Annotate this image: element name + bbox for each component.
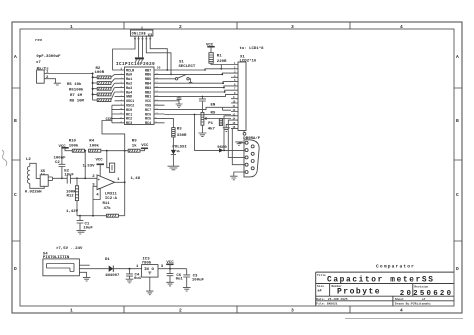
- svg-text:C: C: [456, 192, 459, 198]
- wire minus input: [93, 186, 97, 215]
- svg-text:Date:: Date:: [316, 298, 325, 301]
- svg-text:A: A: [456, 54, 459, 60]
- wire Cx top pin to resistor bus: [44, 73, 92, 75]
- svg-text:Capacitor meterSS: Capacitor meterSS: [327, 276, 435, 284]
- svg-text:4: 4: [400, 24, 403, 30]
- capacitor C4: [126, 269, 133, 280]
- svg-text:D: D: [14, 266, 17, 272]
- inductor L2: [27, 166, 29, 183]
- svg-text:100R: 100R: [95, 71, 105, 75]
- svg-text:B: B: [14, 118, 17, 124]
- svg-text:1k: 1k: [132, 143, 137, 148]
- wire LCD pin14 net down to DB9 pin2: [224, 116, 246, 151]
- wire R8 to IC pin RA4: [111, 92, 115, 100]
- zone ticks right: [454, 88, 462, 241]
- wire RS net: [165, 114, 232, 116]
- svg-text:to: LCD1*8: to: LCD1*8: [240, 46, 265, 51]
- svg-text:Ra4: Ra4: [126, 91, 132, 95]
- svg-text:L2: L2: [26, 158, 31, 162]
- svg-text:10uF: 10uF: [83, 227, 93, 231]
- svg-text:R1: R1: [217, 55, 222, 59]
- wire divider node to balance box: [107, 151, 110, 168]
- capacitor C6: [167, 269, 174, 283]
- svg-text:R10: R10: [69, 139, 77, 143]
- capacitor C3: [183, 269, 190, 288]
- svg-text:0pF-3300uF: 0pF-3300uF: [36, 55, 61, 59]
- resistor R5: [97, 82, 111, 85]
- svg-text:A: A: [14, 54, 17, 60]
- ground under C4: [126, 279, 134, 283]
- svg-text:RB5: RB5: [145, 78, 151, 82]
- wire node row: [53, 177, 98, 179]
- svg-text:RB4: RB4: [145, 83, 151, 87]
- junction dots on bus: [92, 73, 94, 75]
- svg-text:RC3: RC3: [126, 122, 132, 126]
- svg-text:R8 10M: R8 10M: [70, 100, 85, 104]
- wire LCD pin15 net down to DB9 pin3: [228, 120, 245, 157]
- VCC bar divider: [61, 147, 68, 149]
- svg-text:C: C: [14, 192, 17, 198]
- svg-text:Comparator: Comparator: [376, 264, 415, 270]
- wire X5 to node: [48, 177, 52, 180]
- scan smudge left margin: [2, 150, 7, 166]
- svg-text:IC2:A: IC2:A: [105, 197, 118, 201]
- IC1 right pin numbers: [155, 72, 158, 123]
- IC1 right pin stubs: [154, 70, 165, 123]
- svg-text:R4: R4: [89, 139, 94, 143]
- zone ticks bottom: [124, 306, 350, 313]
- wire RB5 to switch S1: [165, 78, 176, 80]
- wire P1 wiper to LCD VO: [207, 118, 232, 120]
- wire IC3 out rail: [158, 268, 187, 270]
- svg-text:Size: Size: [317, 284, 324, 288]
- svg-text:2: 2: [179, 308, 182, 314]
- svg-text:SECLECT: SECLECT: [179, 65, 196, 69]
- svg-text:VSS: VSS: [145, 105, 151, 109]
- wire X3 to sheet top: [141, 27, 143, 31]
- wire LCD pin16 net down to DB9 pin4: [231, 129, 245, 165]
- wire comb joining lower left pins: [112, 105, 115, 123]
- junction dots on LCD bus: [204, 69, 206, 71]
- svg-text:VCC: VCC: [145, 100, 151, 104]
- wire R6 to IC pin RA2: [111, 83, 115, 89]
- svg-text:4k7: 4k7: [208, 126, 216, 131]
- svg-text:PULSSI: PULSSI: [172, 145, 187, 149]
- wire X4 minus to ground: [79, 272, 86, 277]
- TX arrow: [219, 148, 224, 152]
- svg-text:RC7: RC7: [145, 109, 151, 113]
- svg-text:RB3: RB3: [145, 87, 151, 91]
- resistor R3: [172, 128, 175, 137]
- wire X1 pin16 bottom to DB9 shield pin: [243, 131, 245, 133]
- svg-text:GND: GND: [126, 96, 132, 100]
- wire TX drop to 9600: [195, 115, 220, 151]
- crystal X5 body: [40, 175, 48, 187]
- connector X4 power jack body: [43, 259, 80, 276]
- wire RC5 to R3: [165, 118, 174, 127]
- ground under C6: [166, 282, 174, 286]
- op-amp bottom pin to minus net: [93, 188, 100, 199]
- zone ticks left: [12, 88, 20, 241]
- svg-text:R12: R12: [67, 195, 75, 199]
- VCC bar right of R9: [140, 148, 145, 150]
- DB9 pin circles right column: [251, 145, 254, 148]
- connector X3 ONLINE body: [131, 30, 153, 36]
- VCC bar R1: [207, 46, 214, 48]
- svg-text:RB6: RB6: [145, 74, 151, 78]
- capacitor E2 series: [67, 175, 70, 184]
- svg-text:100nF: 100nF: [54, 157, 67, 161]
- svg-text:D: D: [456, 266, 459, 272]
- svg-text:RC6: RC6: [145, 113, 151, 117]
- junction divider tap: [84, 177, 86, 179]
- wire op-amp output: [115, 181, 125, 183]
- VCC bar op-amp: [97, 163, 105, 165]
- wire RB6 to LCD: [165, 73, 232, 74]
- svg-text:220R: 220R: [217, 60, 227, 64]
- wire R5 to IC pin RA1: [111, 79, 115, 83]
- svg-text:Ra2: Ra2: [126, 83, 132, 87]
- connector X6 body: [37, 70, 45, 83]
- svg-text:File:: File:: [316, 302, 325, 306]
- wire to LCD pin8: [165, 94, 232, 96]
- switch S1: [175, 75, 192, 83]
- capacitor C1: [77, 216, 84, 231]
- wire X3 pin1 to MCLR: [113, 39, 135, 70]
- capacitor C2 100nF: [59, 148, 66, 178]
- wire EN net: [165, 107, 232, 110]
- title block outline: [316, 272, 454, 306]
- svg-text:IC1PIC16F2620: IC1PIC16F2620: [116, 63, 155, 67]
- resistor R9: [128, 149, 140, 152]
- junction R12 tap: [76, 177, 78, 179]
- capacitor C7 on VCC pin: [165, 96, 183, 107]
- svg-text:RC4: RC4: [145, 122, 151, 126]
- potentiometer P1: [201, 112, 207, 125]
- zone ticks top: [124, 22, 350, 29]
- resistor R1: [209, 53, 213, 64]
- DB9 shield pin circle: [243, 132, 246, 135]
- svg-text:20250620: 20250620: [400, 290, 453, 298]
- svg-text:100k: 100k: [69, 143, 79, 148]
- svg-text:Revision: Revision: [414, 284, 428, 288]
- IC1 left pin stubs: [115, 70, 125, 123]
- junction on RB7 net: [166, 69, 168, 71]
- LED D2 PULSSI: [168, 137, 180, 170]
- svg-text:Title: Title: [317, 273, 326, 277]
- wire RB7 to LCD: [165, 69, 232, 70]
- ground at DB9: [230, 176, 238, 180]
- svg-text:0.022mH: 0.022mH: [25, 190, 42, 194]
- X1 pin stubs: [231, 65, 238, 129]
- junction on RB6 net: [170, 74, 172, 76]
- svg-text:47k: 47k: [104, 206, 112, 211]
- wire X4 top stub: [79, 264, 89, 266]
- svg-text:EN: EN: [211, 103, 216, 107]
- svg-text:26-JUN 2025: 26-JUN 2025: [328, 298, 348, 301]
- connector X1 LCD body: [238, 62, 246, 131]
- svg-text:R3: R3: [177, 128, 182, 132]
- svg-text:2: 2: [179, 24, 182, 30]
- svg-text:1N4007: 1N4007: [105, 274, 120, 278]
- svg-text:Ra3: Ra3: [126, 87, 132, 91]
- wire X3 pin4 to RB6 net: [146, 39, 171, 75]
- svg-text:x7: x7: [36, 61, 41, 65]
- wire tap down to tank node: [84, 151, 86, 178]
- DB9 pin1 stub to ground: [239, 141, 245, 144]
- svg-text:D1: D1: [105, 258, 110, 262]
- ground under C1: [76, 230, 85, 234]
- capacitor C8 above P1: [199, 96, 206, 112]
- svg-text:0u1: 0u1: [176, 278, 184, 282]
- svg-text:R9: R9: [132, 139, 137, 143]
- resistor R13 contrast: [219, 119, 222, 126]
- svg-text:>7,5V ..24V: >7,5V ..24V: [56, 246, 83, 251]
- ground under P1: [198, 125, 206, 136]
- svg-text:OSC1: OSC1: [126, 100, 134, 104]
- connector X2 DB9 shell: [244, 140, 259, 177]
- op-amp IC2 LM311: [97, 175, 115, 190]
- wire DB9 pin5 to ground: [234, 172, 245, 176]
- svg-text:LM311: LM311: [105, 192, 118, 196]
- resistor R7: [97, 93, 111, 96]
- VCC bar out: [166, 263, 173, 265]
- svg-text:R5 10k: R5 10k: [67, 82, 82, 87]
- junction R10/R4: [84, 150, 86, 152]
- svg-text:of: of: [422, 297, 426, 301]
- svg-text:VCC: VCC: [96, 158, 104, 162]
- wire X4 plus to D1: [79, 268, 108, 270]
- svg-text:Ra0: Ra0: [126, 74, 132, 78]
- svg-text:100k: 100k: [89, 143, 99, 148]
- svg-text:RC2: RC2: [126, 118, 132, 122]
- svg-text:Ra1: Ra1: [126, 78, 132, 82]
- X1 pin numbers: [233, 62, 237, 129]
- resistor R10: [72, 149, 84, 152]
- svg-text:IN: IN: [144, 268, 149, 272]
- svg-text:C2: C2: [55, 161, 60, 165]
- svg-text:MCLR: MCLR: [126, 69, 135, 73]
- svg-text:OSC2: OSC2: [126, 105, 134, 109]
- svg-text:a4: a4: [318, 290, 322, 294]
- wire D1 to IC3: [113, 268, 141, 270]
- resistor R2: [97, 76, 111, 79]
- output node vertical: [124, 149, 126, 216]
- svg-text:RB2: RB2: [145, 91, 151, 95]
- svg-text:RC0: RC0: [126, 109, 132, 113]
- microcontroller IC1 PIC16F2620 body: [125, 67, 155, 125]
- resistor R4: [89, 149, 101, 152]
- balance box op-amp: [109, 163, 114, 172]
- svg-text:RC1: RC1: [126, 113, 132, 117]
- svg-text:3: 3: [291, 24, 294, 30]
- wire R1 to X1 pin2: [211, 63, 231, 69]
- X3 pin stubs with ticks: [134, 36, 151, 39]
- regulator IC3 7805 body: [142, 265, 158, 278]
- wire 1.42 node row: [77, 215, 93, 217]
- svg-text:R7 1M: R7 1M: [70, 94, 83, 98]
- wire L2 bottom rail: [30, 183, 44, 188]
- svg-text:Drawn By:PJRiitamaki: Drawn By:PJRiitamaki: [395, 302, 431, 306]
- wire X3 pin2 to ground bar: [138, 39, 140, 58]
- svg-text:RB1: RB1: [145, 96, 151, 100]
- svg-text:R6100k: R6100k: [69, 88, 84, 93]
- resistor R6: [97, 87, 111, 90]
- resistor R11: [93, 214, 125, 217]
- wire L2 top rail: [30, 163, 40, 178]
- wire input bus vertical: [93, 74, 98, 101]
- wire comparator output to CCP pin: [102, 121, 125, 149]
- IC1 left pin numbers: [120, 72, 123, 123]
- svg-text:CCP: CCP: [106, 118, 114, 122]
- svg-text:330R: 330R: [177, 134, 187, 138]
- wire X3 pin3 to ground bar: [142, 39, 144, 58]
- svg-text:1: 1: [70, 308, 73, 314]
- svg-text:1,48: 1,48: [131, 177, 141, 181]
- wire R4 to R9: [101, 150, 129, 152]
- sheet inner border: [20, 29, 454, 306]
- ground at X4: [83, 277, 91, 281]
- svg-text:RB7: RB7: [145, 69, 151, 73]
- ground under C3: [183, 287, 191, 291]
- wire to LCD pin7: [165, 90, 232, 92]
- svg-text:1: 1: [70, 24, 73, 30]
- svg-text:3: 3: [291, 308, 294, 314]
- wire Cx bottom pin to ground: [44, 79, 55, 84]
- node junction: [61, 177, 63, 179]
- wire to LCD pin6: [165, 86, 232, 88]
- svg-text:20: 20: [157, 67, 161, 70]
- svg-text:rev: rev: [35, 38, 43, 43]
- svg-text:R11: R11: [103, 202, 111, 206]
- svg-text:Probyte: Probyte: [337, 288, 381, 297]
- svg-text:RC5: RC5: [145, 118, 151, 122]
- wire R7 to IC pin RA3: [111, 88, 115, 95]
- svg-text:B: B: [456, 118, 459, 124]
- wire X3 pin5 to RB7 net: [150, 39, 167, 70]
- DB9 pin circles left column: [245, 141, 248, 144]
- svg-text:9600: 9600: [217, 146, 227, 150]
- diode D1: [109, 266, 114, 272]
- wire R2 to IC pin RA0: [111, 74, 115, 77]
- svg-text:P1: P1: [208, 122, 213, 126]
- svg-text:Sheet: Sheet: [395, 297, 404, 301]
- svg-text:10uF: 10uF: [64, 173, 74, 177]
- ground bar under X3: [135, 57, 144, 59]
- svg-text:0u1: 0u1: [134, 277, 142, 281]
- IC3 ground pin: [146, 277, 153, 295]
- svg-text:100uF: 100uF: [192, 278, 205, 282]
- resistor R8: [97, 99, 111, 102]
- title block dividers: [330, 284, 413, 306]
- svg-text:1,42V: 1,42V: [66, 210, 79, 214]
- scan artifact bottom line: [345, 318, 463, 320]
- wire to LCD pin5: [165, 82, 232, 84]
- svg-text:8K0621: 8K0621: [327, 303, 338, 306]
- svg-text:1,33V: 1,33V: [83, 165, 96, 169]
- resistor R12: [75, 178, 78, 215]
- wire LCD pin13 to ground: [223, 124, 231, 131]
- svg-text:4: 4: [400, 308, 403, 314]
- ground at Cx input: [54, 83, 61, 85]
